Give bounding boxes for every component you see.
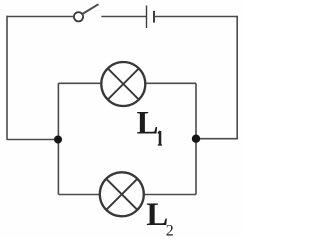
wire: bottom branch through L2 [58,194,196,196]
battery long plate [146,6,148,29]
lamp L1 cross [108,69,138,99]
wire: top branch through L1 [58,82,196,84]
switch S1 blade (open) [82,4,98,14]
svg-text:2: 2 [166,223,174,237]
lamp L2 cross [107,179,137,209]
lamp L2 body [100,172,144,216]
junction node right [192,135,200,143]
junction node left [54,136,62,144]
wire: right outer vertical [236,16,238,139]
wire: battery to top-right corner [155,16,237,18]
wire: top-left horizontal segment [7,16,75,18]
battery short plate [153,11,155,23]
wire: left horizontal to junction [7,139,59,141]
wire: switch to battery [101,16,146,18]
wire: right horizontal from junction [196,138,238,140]
lamp L1 body [101,62,145,106]
wire: inner left vertical (parallel branch) [57,83,59,194]
label L1 subscript 1 [158,131,162,145]
wire: inner right vertical (parallel branch) [195,83,197,194]
switch S1 pivot circle [74,12,83,21]
wire: left outer vertical [6,16,8,140]
svg-text:L: L [137,106,159,142]
